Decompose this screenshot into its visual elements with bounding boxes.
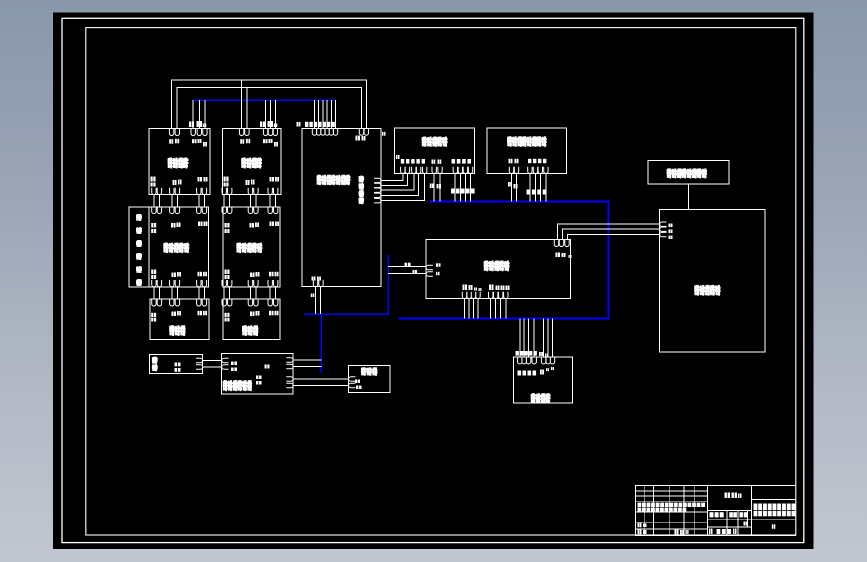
title block text 图名 — [638, 493, 796, 535]
wires blue net-C taps to sensor board left pins — [388, 266, 426, 273]
title block small mark — [744, 522, 746, 526]
wires sensor board bottom pins to blue net-B — [465, 299, 506, 319]
block M2 right motor 右电机 — [222, 299, 280, 340]
wires left drive section to left motor — [154, 287, 205, 299]
wires motion card right pins to blue net-B — [455, 174, 471, 202]
wires blue net-A taps to right driver top pins — [266, 100, 276, 129]
wires power mgmt board to blue net-C — [293, 360, 321, 367]
wire pan-tilt box to laptop — [687, 184, 689, 210]
block U6 sensor mainboard 传感器主板 — [426, 240, 570, 299]
wires right driver to right drive section — [224, 195, 276, 207]
wires comm board bottom pins to blue net-C — [315, 287, 320, 315]
wire blue power net-C (comm board to power mgmt) — [303, 255, 388, 314]
block U4 motion control card 运动控制卡 — [395, 128, 475, 174]
wires sensor board top pins to laptop — [558, 224, 660, 240]
block U12 driver power board (vertical label) — [129, 207, 149, 287]
wire bus B: driver tops to comm board — [177, 87, 361, 128]
wires comm board right pins to motion control card bottom pins — [381, 174, 425, 201]
block M1 left motor 左电机 — [150, 299, 209, 340]
block U8 laptop computer 笔记本电脑 — [660, 210, 765, 353]
block BT1 battery 电池 — [150, 354, 203, 373]
wire bus A tap to right driver — [241, 80, 243, 129]
wires battery to power mgmt board — [203, 361, 222, 368]
wire bus A: driver tops to comm board — [171, 80, 366, 129]
title block cell text 阶段标记 — [710, 512, 714, 517]
block U3 communication and power section 通讯与电源部分 — [302, 128, 381, 286]
outer border frame — [62, 18, 804, 542]
label on net-C wire to sensor board — [405, 263, 408, 266]
block U7 three-axis compass 三维罗盘 — [514, 357, 573, 403]
block U5 obstacle avoidance and remote receiver card 避障与遥控采集卡 — [487, 128, 566, 174]
wires blue net-B to compass top pins — [520, 319, 553, 358]
wires motion card middle pins to blue net-B — [434, 174, 440, 202]
title block header text row 标记处数分区更改文件号签名日期 — [638, 503, 642, 507]
title block cell label 日期 — [675, 530, 677, 535]
title block left column labels 设计审核 — [638, 523, 640, 528]
inner border frame — [86, 28, 796, 535]
wires power mgmt board to charger — [293, 379, 349, 386]
wires blue net-A taps to comm board top pins — [315, 100, 336, 128]
wire blue bus net-A (top, above drivers) — [194, 99, 336, 101]
title block bottom row text 审核工艺批准 — [709, 529, 711, 535]
wire blue bus net-B (motion/obstacle to laptop loop) — [399, 202, 609, 319]
title block table — [636, 486, 796, 536]
block U14 right drive section 右驱动部分 — [222, 207, 280, 287]
wires left driver to left drive section — [154, 195, 205, 207]
title block sheet number — [772, 524, 774, 529]
title block drawing name text 机器人底盘电路图 (dense) — [754, 504, 758, 511]
block U10 power management board 电源管理板 — [222, 353, 293, 394]
wires obstacle card pins to blue net-B — [512, 174, 546, 202]
block U2 right motor driver 右驱动器 — [222, 129, 281, 195]
title block second text row 设计标准化阶段标记 — [638, 508, 642, 512]
wire bus B tap to right driver — [246, 87, 248, 128]
wires right drive section to right motor — [224, 287, 276, 299]
wire blue power net-C drop to power mgmt board — [320, 314, 322, 373]
block U1 left motor driver 左驱动器 — [149, 129, 210, 195]
block U11 charger 充电器 — [349, 365, 390, 392]
block U13 left drive section 左驱动部分 — [149, 207, 209, 287]
block U9 two-DOF pan-tilt system 二自由度云台系统 — [648, 161, 729, 184]
wires blue net-A taps to left driver top pins — [193, 100, 205, 129]
